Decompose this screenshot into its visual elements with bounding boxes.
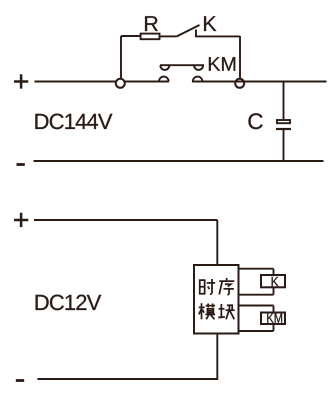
wire: module output to K coil lower [239, 294, 274, 296]
wire: top positive rail left segment [35, 81, 170, 83]
contactor coil KM box [261, 313, 285, 325]
node: left junction [116, 79, 125, 88]
plus terminal DC12V [14, 213, 28, 227]
label KM coil [267, 313, 282, 322]
label DC12V [36, 295, 102, 311]
label 模 (glyph drawn as strokes) [199, 303, 215, 319]
capacitor C bottom plate [276, 128, 291, 130]
minus terminal DC144V [17, 163, 25, 166]
wire: module output to KM coil lower [239, 330, 274, 332]
contact KM bridge cup left [160, 65, 169, 70]
label DC144V [35, 114, 112, 130]
minus terminal DC12V [16, 379, 24, 382]
label 块 (glyph drawn as strokes) [218, 304, 234, 319]
wire: lower positive feed [34, 219, 217, 221]
wire: branch riser right [239, 36, 241, 79]
wire: R to switch [161, 35, 177, 37]
label K [204, 16, 216, 31]
contact KM bridge bar [160, 64, 204, 66]
capacitor C top plate [277, 120, 290, 123]
wire: module down to negative [216, 334, 218, 380]
wire: module output to KM coil upper [239, 305, 274, 307]
wire: capacitor bottom lead [283, 129, 285, 161]
wire: branch riser left [120, 36, 122, 79]
label K coil [272, 277, 279, 286]
label 序 (glyph drawn as strokes) [219, 278, 234, 295]
relay coil K box [261, 275, 285, 287]
wire: down into module [216, 220, 218, 264]
timer module box [194, 265, 239, 334]
wire: branch horizontal left [121, 35, 140, 37]
label C [248, 113, 262, 129]
label 时 (glyph drawn as strokes) [200, 279, 215, 294]
plus terminal DC144V [14, 74, 28, 88]
wire: top negative rail [34, 160, 324, 162]
contact KM bridge cup right [194, 65, 203, 70]
resistor R [141, 34, 160, 40]
switch K blade [177, 25, 200, 37]
switch K fixed contact [195, 30, 197, 37]
contact KM fixed stud right [193, 77, 203, 82]
contact KM fixed stud left [159, 77, 169, 82]
node: right junction [235, 79, 244, 88]
wire: K coil loop right vertical [273, 269, 275, 295]
wire: module output to K coil upper [239, 268, 274, 270]
label R [145, 16, 158, 31]
wire: switch to right branch corner [195, 35, 240, 37]
label KM [209, 57, 235, 71]
wire: KM coil loop right vertical [273, 306, 275, 332]
wire: capacitor top lead [283, 82, 285, 120]
wire: lower negative feed [38, 378, 219, 380]
wire: top positive rail right segment [192, 81, 327, 83]
